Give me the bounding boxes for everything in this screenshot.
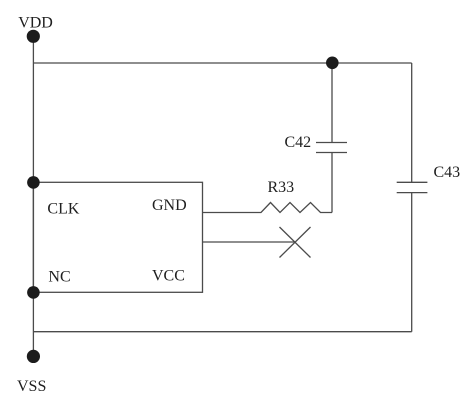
svg-text:NC: NC: [48, 269, 70, 286]
svg-text:CLK: CLK: [47, 201, 79, 218]
svg-text:VCC: VCC: [152, 268, 185, 285]
svg-text:R33: R33: [268, 179, 295, 196]
svg-text:VSS: VSS: [17, 378, 46, 395]
svg-text:C42: C42: [285, 134, 312, 151]
svg-text:VDD: VDD: [18, 15, 53, 32]
svg-text:C43: C43: [434, 164, 461, 181]
svg-text:GND: GND: [152, 197, 187, 214]
